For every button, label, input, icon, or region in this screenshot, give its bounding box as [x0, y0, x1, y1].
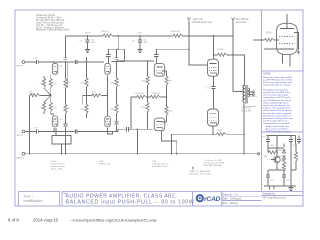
- wire: NFB stub: [82, 96, 84, 105]
- label: OUTPUT: [242, 108, 252, 113]
- transformer T1 core: [245, 85, 247, 104]
- svg-text:RePhe Trap: RePhe Trap: [99, 162, 111, 165]
- node: grid node stage2: [147, 60, 149, 62]
- svg-text:E58cap: E58cap: [230, 203, 239, 205]
- svg-text:EL34 screen-grid resistors add: EL34 screen-grid resistors add: [263, 81, 292, 84]
- svg-text:8 of 8: 8 of 8: [8, 218, 19, 223]
- resistor R30 (sub-circuit series): [268, 148, 278, 154]
- resistor R23 (2200 grid stopper): [253, 32, 279, 42]
- svg-text:x konnka: x konnka: [247, 106, 257, 108]
- svg-text:stage has been added for this: stage has been added for this: [263, 104, 290, 107]
- svg-text:47u: 47u: [271, 180, 274, 182]
- wire: x=131 feedback drop: [130, 97, 132, 129]
- wire: ground bus: [25, 153, 258, 155]
- notes text block top-left: [36, 14, 70, 32]
- wire: screen feed: [214, 54, 218, 56]
- wire: primary bottom to R22 run: [243, 103, 245, 154]
- wire: x=137.3 down to ground bus: [136, 129, 138, 154]
- label: sub-circuit: [262, 136, 296, 182]
- node: bus taps: [29, 153, 31, 155]
- resistor R1 (grid leak): [40, 76, 46, 88]
- terminal J2 INPUT-: [22, 130, 25, 133]
- svg-text:fix power level when I repaire: fix power level when I repaired: [263, 112, 292, 115]
- resistor R9 (rail dropper 1): [101, 31, 113, 37]
- svg-text:Drawn by:: Drawn by:: [223, 193, 234, 196]
- tube V4 (splitter lower triode): [105, 116, 111, 127]
- svg-text:BF-2*BB 2/4 EuBF: BF-2*BB 2/4 EuBF: [204, 165, 223, 167]
- wire: column C lower: [116, 114, 118, 132]
- wire: loop to ground bus: [61, 144, 63, 154]
- wire: R2 bottom through node to R4: [50, 88, 52, 103]
- svg-text:improved linearity as required: improved linearity as required.: [263, 84, 291, 87]
- title block outline: [19, 192, 304, 207]
- resistor R3 (lower grid leak): [42, 103, 45, 112]
- wire: V6 cathode step to bus: [161, 131, 176, 154]
- wire: V3 cathode/plate tie vertical: [107, 76, 109, 117]
- node: cathode junction: [50, 95, 52, 97]
- wire: diagonal tail node to R3 top: [44, 95, 51, 102]
- svg-text:otherwise-bad output stage: otherwise-bad output stage: [263, 94, 289, 97]
- wire: sub-circuit stubs below rail: [269, 186, 271, 190]
- svg-text:e.g. RF NFB loop trims on EL34: e.g. RF NFB loop trims on EL34: [263, 78, 293, 81]
- svg-text:10k/5W: 10k/5W: [101, 31, 109, 33]
- node: cathode net: [212, 133, 214, 135]
- node: mid tap stage2: [147, 96, 149, 98]
- label +HT1: [192, 19, 212, 24]
- resistor R7 (plate load lower): [64, 105, 67, 114]
- tube V1 (upper input triode): [52, 63, 58, 74]
- svg-text:- 470R Tube-rather bandpass: - 470R Tube-rather bandpass: [265, 130, 292, 133]
- svg-text:2014aug19: 2014aug19: [230, 199, 242, 201]
- resistor R4 (lower cathode): [49, 103, 52, 112]
- svg-text:47u: 47u: [287, 180, 290, 182]
- wire: flag1 to rail: [188, 21, 190, 36]
- svg-text:was 600 ohm and NFB of the: was 600 ohm and NFB of the: [263, 91, 291, 94]
- node: rail tap3: [213, 35, 215, 37]
- svg-text:plated heater output path for: plated heater output path for a: [263, 114, 292, 117]
- power flag +HT1: [187, 18, 190, 22]
- svg-text:without heads EL34 B+ slewing: without heads EL34 B+ slewing: [263, 109, 293, 112]
- svg-text:450V: 450V: [91, 42, 96, 44]
- resistor R11 (divider lower): [85, 105, 88, 114]
- terminal: bus end: [258, 153, 260, 155]
- wire: column ends to tubes: [166, 71, 168, 76]
- capacitor C31: [289, 139, 293, 141]
- svg-text:are RF results to BK of it in: are RF results to BK of it in: [263, 120, 289, 123]
- svg-text:Drawing No:: Drawing No:: [263, 193, 276, 196]
- tube V6 (driver lower triode): [154, 118, 164, 131]
- svg-text:1M: 1M: [40, 83, 43, 85]
- tube V5 (driver upper triode): [154, 64, 164, 77]
- wire: plate feed loop: [108, 49, 124, 61]
- node: primary bottom/R22: [243, 133, 245, 135]
- wire: B+ top rail: [66, 36, 234, 57]
- V8 grid 2: [279, 36, 295, 38]
- svg-text:-38V: -38V: [263, 156, 268, 158]
- svg-text:+445 V B+: +445 V B+: [192, 19, 204, 21]
- svg-text:10u: 10u: [271, 145, 274, 147]
- svg-text:output driver is 2x8TTV and it: output driver is 2x8TTV and it: [263, 96, 291, 99]
- capacitor C34: [282, 175, 286, 177]
- resistor R20 (V6 cathode): [165, 106, 168, 115]
- node: V2 grid: [53, 131, 55, 133]
- transformer T1 primary: [243, 85, 244, 102]
- svg-text:rCAD: rCAD: [204, 196, 221, 203]
- wire: cross bar: [268, 147, 284, 149]
- resistor R17 (balance left): [131, 93, 146, 99]
- wire: V7b cathode down: [212, 126, 214, 134]
- wire: V2 grid stub: [53, 128, 55, 132]
- svg-text:was 75mVA before the change: was 75mVA before the change: [263, 99, 292, 102]
- wire: R21 to transformer drop: [227, 55, 244, 86]
- node: loop/rail drop: [188, 48, 190, 50]
- capacitor C30: [266, 139, 270, 141]
- svg-text:10u: 10u: [293, 145, 296, 147]
- wire: V3 plate to loop: [112, 61, 125, 63]
- V8 grid 1: [279, 42, 295, 44]
- svg-text:1k/2W: 1k/2W: [217, 49, 224, 51]
- label +HT2: [236, 19, 250, 24]
- ground (C5): [85, 48, 90, 52]
- logo OrCAD: [196, 194, 221, 203]
- wire: J1 to C1: [25, 61, 36, 63]
- svg-text:(500mA peak max): (500mA peak max): [192, 21, 212, 24]
- svg-text:(B+) 465Vdc: (B+) 465Vdc: [236, 19, 250, 21]
- capacitor C14 (between V7a/V7b): [207, 76, 216, 109]
- resistor R6 (plate load upper): [64, 79, 67, 88]
- wire: centre tap lead: [233, 91, 243, 93]
- svg-text:EARTH: EARTH: [16, 156, 24, 159]
- wire: rail drop: [117, 36, 119, 49]
- node: rail tap: [117, 35, 119, 37]
- diode D1: [282, 150, 285, 153]
- wire: C13 to V5 top: [155, 57, 157, 64]
- wire: R4 to V2 top: [51, 112, 54, 117]
- svg-text:modification: modification: [24, 199, 43, 203]
- wire: diagonal R1 bottom to tail node: [44, 88, 51, 95]
- terminal J3 (ground): [22, 152, 25, 155]
- wire: left column: [267, 135, 269, 139]
- resistor R16 (bias divider lower): [146, 103, 149, 112]
- tube V7a (output upper): [208, 59, 219, 76]
- ground (C6): [137, 48, 142, 52]
- resistor R15 (bias divider upper): [146, 76, 149, 85]
- wire: column A lower: [65, 114, 67, 154]
- wire: tap to R12: [83, 95, 92, 97]
- svg-text:BALANCED input PUSH-PULL -- 80: BALANCED input PUSH-PULL -- 80 to 100W: [66, 199, 195, 205]
- wire: column B bottom stub: [86, 114, 88, 119]
- svg-text:NOTE:: NOTE:: [263, 71, 271, 75]
- node: right tap stage2: [166, 96, 168, 98]
- svg-text:C16RF16: C16RF16: [135, 93, 145, 95]
- svg-text:Size:: Size:: [223, 203, 228, 205]
- wire: rail to V7a plate: [213, 36, 215, 59]
- capacitor C8 (column A lower): [63, 124, 69, 127]
- wire: x=147.6 column: [147, 85, 149, 103]
- capacitor C7 (column A): [63, 57, 69, 60]
- wire: C1 to grid bus / coupling run: [38, 61, 104, 63]
- capacitor C13 (plate feed2): [154, 55, 158, 57]
- svg-text:MOT-amp256-print.duf: MOT-amp256-print.duf: [263, 196, 286, 199]
- resistor R14 (100k lower): [110, 105, 119, 114]
- svg-text:purpose, and to provide better: purpose, and to provide better: [263, 107, 291, 110]
- node: V1 grid: [53, 61, 55, 63]
- right column box divider (tube box / note box / sub-circuit box): [260, 10, 262, 192]
- wire: V8 heater legs: [282, 55, 284, 64]
- wire: V8 plate lead: [286, 14, 288, 28]
- svg-text:+465V: +465V: [84, 32, 91, 34]
- wire: R22 to xfmr leg: [226, 133, 244, 135]
- tube V2 (lower input triode): [52, 116, 58, 127]
- resistor R12 (feedback, horizontal): [92, 91, 102, 97]
- wire: J2 to C2: [25, 131, 36, 133]
- wire: C2 to lower grid run: [38, 131, 118, 133]
- svg-text:Litton-coupled flange limiter: Litton-coupled flange limiter: [263, 101, 289, 104]
- svg-text:470R: 470R: [217, 130, 223, 132]
- wire: B+ drop to primary centre: [232, 36, 234, 92]
- svg-text:INPUT: INPUT: [16, 135, 23, 137]
- svg-text:5k6/10W: 5k6/10W: [171, 31, 181, 33]
- svg-text:+nn: +nn: [262, 136, 265, 138]
- capacitor C11 (column C lower): [114, 122, 120, 125]
- svg-text:Date:: Date:: [223, 198, 229, 201]
- terminal J1 INPUT+: [22, 61, 25, 64]
- node: on ground bus: [137, 153, 139, 155]
- resistor R19 (V5 cathode): [165, 76, 168, 85]
- capacitor C4 (interstage coupling lower): [75, 129, 78, 134]
- node: rail junction C6: [139, 35, 141, 37]
- capacitor C2 (input coupling): [36, 129, 38, 133]
- wire: column C mid: [116, 87, 118, 105]
- label: outside note box: [247, 96, 258, 108]
- wire: mid columns: [276, 135, 278, 156]
- wire: top rail: [267, 134, 296, 136]
- power flag +HT2: [231, 18, 234, 22]
- resistor R31 (sub-circuit shunt): [282, 159, 285, 171]
- transistor Q1 (bias regulator): [274, 156, 280, 162]
- capacitor C10 (column C): [114, 57, 120, 60]
- svg-text:1M: 1M: [40, 108, 43, 110]
- wire: R3 bottom stub: [43, 112, 45, 115]
- svg-text:fixed RbK driver: fixed RbK driver: [152, 165, 168, 168]
- wire: left return to bus: [172, 134, 214, 154]
- wire: bottom rail: [264, 185, 296, 187]
- node: rail drop junction: [117, 48, 119, 50]
- svg-text:at full load: at full load: [236, 21, 247, 24]
- label: revision cell: [24, 195, 43, 203]
- wire: caption stub: [192, 167, 194, 170]
- wire: column A middle: [65, 88, 67, 105]
- svg-text:transformer shorting the B+ am: transformer shorting the B+ amp: [263, 117, 294, 120]
- wire: V2 cathode loop: [52, 128, 71, 144]
- wire: secondary leads: [249, 91, 253, 93]
- wire: x=166.5 column mid: [166, 85, 168, 106]
- terminal: speaker -: [253, 94, 255, 96]
- svg-text:C16RF16: C16RF16: [151, 93, 161, 95]
- wire: V5 grid entry: [117, 60, 155, 62]
- wire: column C upper: [116, 49, 118, 78]
- svg-text:2014-Aug-19: 2014-Aug-19: [33, 218, 58, 223]
- resistor R8 (divider upper): [85, 78, 88, 87]
- resistor R22 (cathode to xfmr): [213, 130, 226, 136]
- wire: R12 to V3 column: [101, 95, 107, 97]
- wire: between balance resistors: [146, 96, 150, 98]
- wire: flag2 to rail end: [232, 21, 234, 36]
- resistor R21 (screen stopper): [217, 49, 227, 56]
- svg-text:Many (balanced) input here: Many (balanced) input here: [263, 88, 289, 91]
- wire: column B: [86, 57, 88, 78]
- capacitor C12 (coupling lower): [126, 127, 129, 132]
- V8 cathode: [280, 48, 294, 50]
- resistor R32 (sub-circuit right): [291, 144, 298, 171]
- tube V8 (EL34 envelope): [277, 23, 298, 54]
- resistor R13 (100k upper): [110, 78, 119, 87]
- svg-text:8 Ω & 4Ω: 8 Ω & 4Ω: [242, 110, 252, 112]
- resistor R2 (cathode): [49, 75, 57, 88]
- resistor R5 (tail, horizontal): [30, 91, 40, 97]
- V8 plate: [280, 27, 294, 29]
- capacitor C32: [297, 139, 301, 141]
- capacitor C9 (plate feed): [106, 55, 110, 57]
- ground (sub-circuit): [288, 186, 293, 190]
- transformer T1 secondary: [249, 88, 250, 97]
- wire: tail feed: [40, 94, 51, 96]
- svg-text:INPUT: INPUT: [16, 66, 23, 68]
- wire: column A upper: [65, 57, 67, 79]
- capacitor C5 (rail decoupling): [80, 32, 97, 48]
- schematic sheet frame: [15, 10, 303, 206]
- wire: rail drop2: [188, 36, 190, 49]
- wire: lower grid run stage2: [118, 129, 153, 131]
- node: screen tap: [213, 54, 215, 56]
- svg-text:AJG --: AJG --: [24, 195, 35, 199]
- svg-text:450V: 450V: [143, 42, 148, 44]
- svg-text:+420V: +420V: [136, 32, 143, 34]
- svg-text:Fixed-bias Gx2 Output: Fixed-bias Gx2 Output: [189, 172, 211, 175]
- svg-text:- 30 dB/xx: - 30 dB/xx: [247, 96, 258, 98]
- svg-text:- Bridge limiter heater, bias: - Bridge limiter heater, bias: [265, 125, 290, 128]
- wire: V4 below step: [108, 128, 113, 134]
- wire: R18 to x=166.5: [160, 96, 167, 98]
- capacitor C33: [266, 175, 270, 177]
- tube V3 (splitter upper triode): [105, 63, 111, 74]
- diode D2: [282, 156, 285, 159]
- svg-text:Many quiet values refer to NFB: Many quiet values refer to NFB: [263, 76, 292, 79]
- wire: column B mid: [86, 87, 88, 105]
- svg-text:A.G.: A.G.: [235, 193, 240, 196]
- wire: V1 plate riser: [67, 62, 69, 88]
- terminal: speaker +: [253, 91, 255, 93]
- wire: C9 to V3: [107, 57, 109, 64]
- capacitor C1 (input coupling): [36, 60, 38, 64]
- wire: tail to ground bus: [29, 95, 32, 153]
- capacitor C3 (interstage coupling): [75, 60, 78, 65]
- svg-text:-80 to -3 dB: -80 to -3 dB: [51, 167, 63, 170]
- svg-text:2200: 2200: [266, 32, 272, 35]
- wire: column ends: [147, 61, 149, 76]
- resistor R18 (balance right): [150, 93, 160, 99]
- svg-text:Measured: 0.08% thd (avg. driv: Measured: 0.08% thd (avg. drive): [36, 29, 70, 32]
- capacitor C6 (rail decoupling): [132, 32, 149, 48]
- resistor R10 (rail dropper 2): [171, 31, 183, 37]
- node: divider tap: [86, 95, 88, 97]
- node: rail tap2: [188, 35, 190, 37]
- node: crossing screen feed: [232, 54, 234, 56]
- svg-text:~/Linux/OpenOffice.org/Circuit: ~/Linux/OpenOffice.org/Circuit-Examples/…: [70, 217, 157, 222]
- node: rail junction C5: [87, 35, 89, 37]
- wire: plate feed loop stage2: [156, 49, 207, 65]
- svg-text:- Bias, turn-on controllers,: - Bias, turn-on controllers,: [265, 127, 289, 130]
- tube V7b (output lower): [208, 109, 219, 126]
- title text: [66, 194, 195, 206]
- wire: V8 g2 side lead with arrow: [294, 33, 299, 51]
- node: bus tap x=137.3: [137, 128, 139, 130]
- wire: cathode lead left: [264, 48, 280, 50]
